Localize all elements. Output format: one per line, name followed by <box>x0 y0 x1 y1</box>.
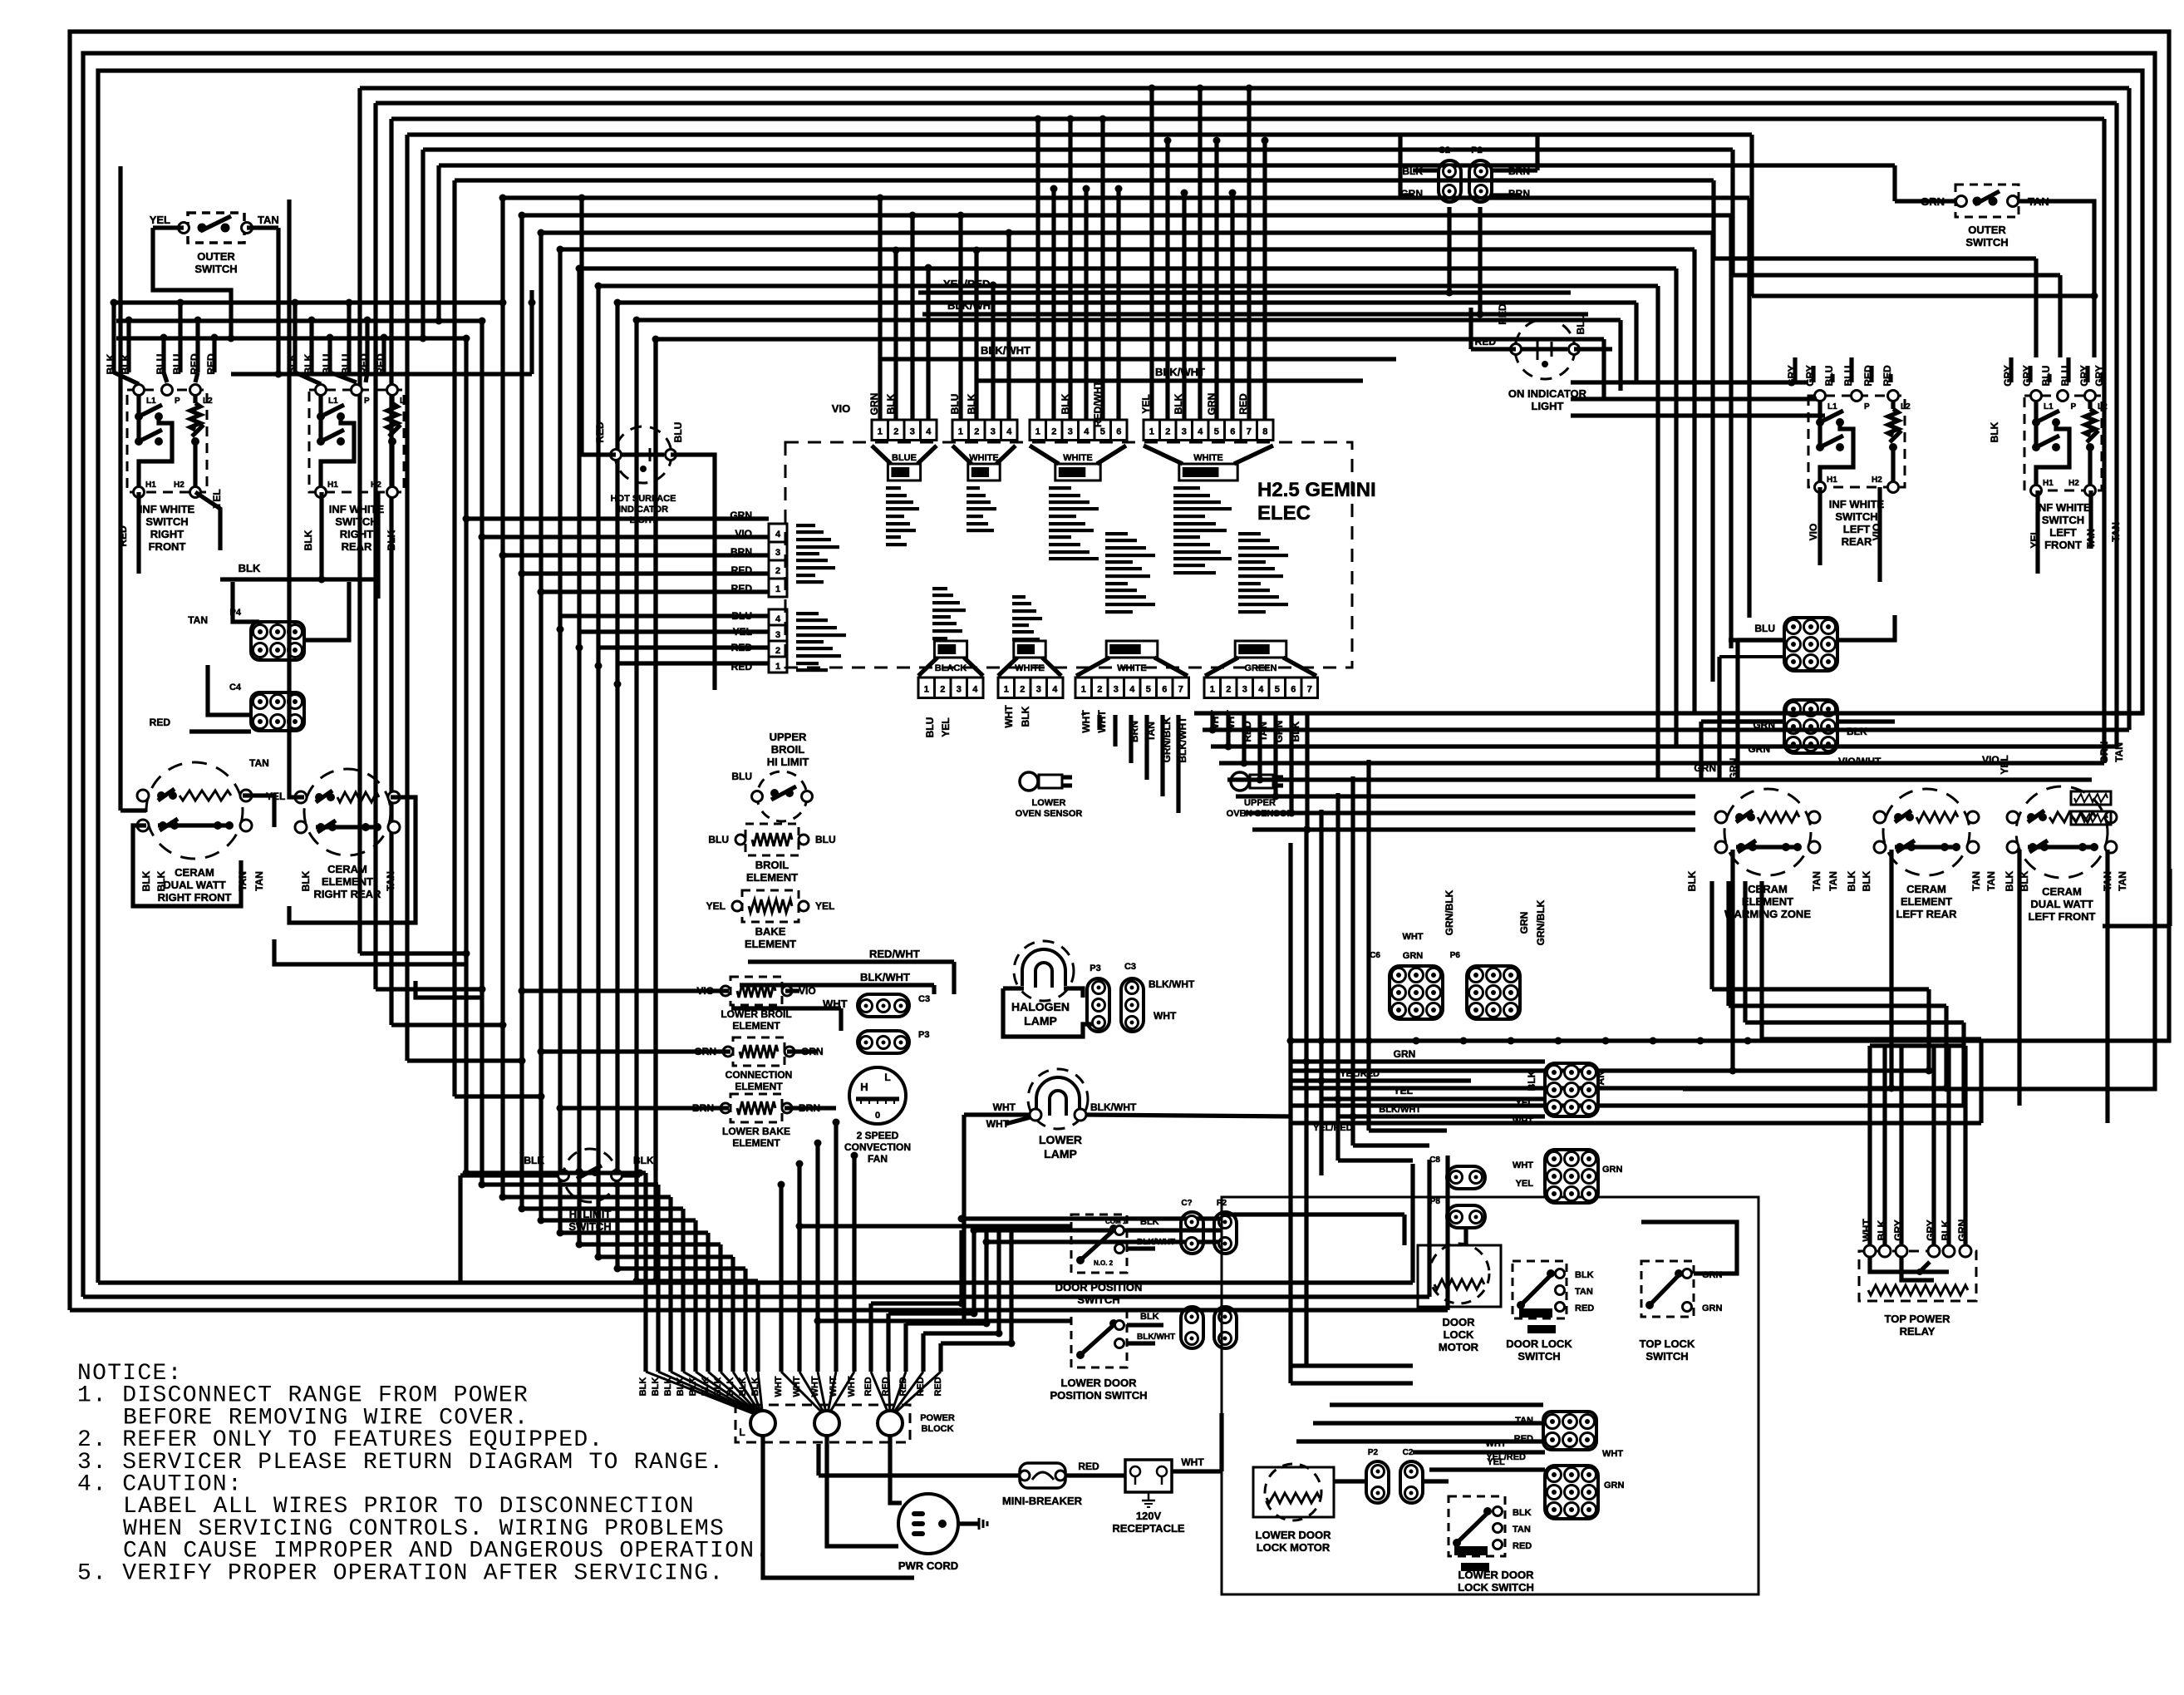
svg-text:120V: 120V <box>1136 1510 1162 1522</box>
svg-text:1: 1 <box>1210 685 1215 695</box>
svg-text:BLK: BLK <box>633 1155 654 1166</box>
svg-text:L2: L2 <box>2098 402 2108 411</box>
svg-text:P: P <box>1864 402 1870 411</box>
svg-text:CONVECTION: CONVECTION <box>844 1141 911 1153</box>
svg-text:BLU: BLU <box>672 422 684 443</box>
svg-text:BLK: BLK <box>239 562 261 574</box>
svg-text:BLK: BLK <box>303 353 314 374</box>
svg-text:4: 4 <box>1258 685 1264 695</box>
svg-text:RED: RED <box>1513 1541 1532 1551</box>
svg-text:1: 1 <box>775 662 780 672</box>
svg-text:CERAM: CERAM <box>2042 885 2082 898</box>
svg-text:BLK: BLK <box>638 1377 648 1397</box>
svg-text:RECEPTACLE: RECEPTACLE <box>1112 1522 1184 1535</box>
svg-text:BLACK: BLACK <box>935 663 967 673</box>
svg-text:LOWER: LOWER <box>1039 1133 1082 1146</box>
svg-text:ELEMENT: ELEMENT <box>322 875 373 888</box>
svg-text:1: 1 <box>1035 427 1040 437</box>
svg-text:TAN: TAN <box>2117 871 2128 891</box>
svg-text:BLK: BLK <box>1513 1508 1532 1518</box>
svg-text:LEFT: LEFT <box>1843 523 1871 535</box>
svg-text:RED: RED <box>933 1377 943 1396</box>
svg-text:INF WHITE: INF WHITE <box>140 503 195 515</box>
svg-text:GRY: GRY <box>2093 365 2105 387</box>
svg-text:2: 2 <box>1097 685 1102 695</box>
svg-text:POSITION SWITCH: POSITION SWITCH <box>1050 1389 1148 1402</box>
svg-text:SWITCH: SWITCH <box>2042 514 2084 526</box>
svg-text:RED: RED <box>358 353 370 375</box>
svg-text:BLU: BLU <box>815 834 836 845</box>
svg-text:YEL: YEL <box>1140 394 1152 413</box>
svg-text:L1: L1 <box>146 397 156 406</box>
svg-text:RED: RED <box>205 353 217 375</box>
svg-text:4: 4 <box>775 614 781 624</box>
svg-text:YEL/RED: YEL/RED <box>943 278 990 290</box>
svg-text:WHT: WHT <box>1080 710 1092 733</box>
svg-text:L1: L1 <box>328 397 338 406</box>
svg-text:BLK/WHT: BLK/WHT <box>1137 1333 1175 1342</box>
svg-text:RED: RED <box>594 421 606 443</box>
svg-text:BLOCK: BLOCK <box>921 1424 953 1434</box>
svg-text:GRN: GRN <box>1956 1220 1968 1242</box>
svg-text:4: 4 <box>1084 427 1090 437</box>
svg-text:WHT: WHT <box>1861 1219 1872 1242</box>
svg-text:BLK: BLK <box>1861 870 1872 891</box>
svg-text:BLU: BLU <box>1842 366 1854 387</box>
svg-text:LIGHT: LIGHT <box>630 515 657 525</box>
svg-text:BLU: BLU <box>2059 366 2071 387</box>
svg-text:5: 5 <box>1146 685 1151 695</box>
svg-text:LOCK MOTOR: LOCK MOTOR <box>1257 1541 1331 1554</box>
svg-text:REAR: REAR <box>342 540 372 553</box>
svg-text:P: P <box>2071 402 2077 411</box>
svg-text:LOWER BAKE: LOWER BAKE <box>722 1126 790 1137</box>
svg-text:YEL: YEL <box>815 900 834 912</box>
svg-text:BLK: BLK <box>1686 870 1698 891</box>
svg-text:5: 5 <box>1275 685 1280 695</box>
svg-text:BLK/WHT: BLK/WHT <box>1137 1238 1175 1247</box>
svg-text:DOOR: DOOR <box>1443 1316 1476 1328</box>
svg-text:MINI-BREAKER: MINI-BREAKER <box>1002 1495 1083 1507</box>
svg-text:7: 7 <box>1247 427 1252 437</box>
svg-text:WHT: WHT <box>1485 1439 1506 1449</box>
svg-text:2: 2 <box>1226 685 1231 695</box>
svg-text:LOWER BROIL: LOWER BROIL <box>721 1008 791 1020</box>
svg-text:GRN: GRN <box>1518 912 1530 934</box>
svg-text:SWITCH: SWITCH <box>1645 1350 1688 1362</box>
svg-text:BLK: BLK <box>155 870 167 891</box>
svg-text:BAKE: BAKE <box>755 925 786 938</box>
svg-text:CERAM: CERAM <box>1748 883 1788 895</box>
svg-text:RIGHT REAR: RIGHT REAR <box>314 888 382 900</box>
svg-text:P: P <box>364 397 370 406</box>
svg-text:6: 6 <box>1230 427 1235 437</box>
svg-text:1: 1 <box>958 427 963 437</box>
svg-text:BLK: BLK <box>386 530 397 550</box>
svg-text:YEL: YEL <box>1394 1085 1413 1096</box>
svg-text:C3: C3 <box>1124 962 1136 972</box>
svg-text:SWITCH: SWITCH <box>194 263 237 275</box>
svg-text:WHT: WHT <box>774 1376 784 1397</box>
svg-text:RIGHT: RIGHT <box>340 528 374 540</box>
svg-text:4: 4 <box>1006 427 1012 437</box>
svg-text:TAN: TAN <box>1575 1287 1593 1297</box>
svg-text:BLK/WHT: BLK/WHT <box>981 344 1031 357</box>
svg-text:SWITCH: SWITCH <box>1077 1293 1119 1306</box>
svg-text:ELEC: ELEC <box>1257 502 1311 525</box>
svg-text:VIO: VIO <box>799 985 816 997</box>
svg-text:H1: H1 <box>1827 475 1837 485</box>
svg-text:2: 2 <box>940 685 945 695</box>
svg-text:BLK: BLK <box>1940 1220 1951 1240</box>
svg-text:BLK: BLK <box>140 870 152 891</box>
svg-text:BLK: BLK <box>524 1155 544 1166</box>
svg-text:BLK: BLK <box>1060 393 1071 414</box>
svg-text:GRN/BLK: GRN/BLK <box>1444 889 1455 935</box>
svg-text:GRY: GRY <box>1925 1220 1936 1241</box>
svg-text:1: 1 <box>1149 427 1154 437</box>
svg-text:RELAY: RELAY <box>1900 1325 1936 1338</box>
svg-text:3: 3 <box>1036 685 1041 695</box>
svg-text:6: 6 <box>1291 685 1296 695</box>
svg-text:LOWER DOOR: LOWER DOOR <box>1061 1377 1138 1389</box>
svg-text:RED: RED <box>1862 365 1874 387</box>
svg-text:P2: P2 <box>1471 145 1482 155</box>
svg-text:2: 2 <box>1051 427 1056 437</box>
svg-text:4: 4 <box>926 427 932 437</box>
svg-text:VIO: VIO <box>832 402 850 415</box>
svg-text:L1: L1 <box>2044 402 2054 411</box>
svg-text:BROIL: BROIL <box>755 859 789 871</box>
svg-text:L1: L1 <box>1827 402 1837 411</box>
svg-text:BLU: BLU <box>1575 314 1586 335</box>
svg-text:GRY: GRY <box>2002 365 2014 387</box>
svg-text:REAR: REAR <box>1842 535 1872 548</box>
svg-text:H1: H1 <box>145 480 156 490</box>
svg-text:GRN: GRN <box>1604 1481 1625 1491</box>
svg-text:3: 3 <box>1182 427 1187 437</box>
svg-text:GRN: GRN <box>1702 1303 1723 1313</box>
svg-text:BLK: BLK <box>885 393 897 414</box>
svg-text:BLK: BLK <box>300 870 312 891</box>
svg-text:RED: RED <box>1237 393 1249 415</box>
svg-text:RED: RED <box>150 717 171 728</box>
svg-text:2: 2 <box>1165 427 1170 437</box>
svg-text:WHITE: WHITE <box>1117 663 1146 673</box>
svg-text:WHITE: WHITE <box>1193 453 1222 463</box>
svg-text:BLK: BLK <box>303 530 314 550</box>
svg-text:H1: H1 <box>327 480 338 490</box>
svg-text:RED: RED <box>189 353 200 375</box>
svg-text:L: L <box>739 1426 745 1438</box>
svg-text:ELEMENT: ELEMENT <box>1901 895 1952 908</box>
svg-text:WHT: WHT <box>1181 1456 1204 1468</box>
svg-text:OVEN SENSOR: OVEN SENSOR <box>1016 809 1083 819</box>
svg-text:RIGHT FRONT: RIGHT FRONT <box>158 891 232 904</box>
svg-text:CERAM: CERAM <box>1906 883 1946 895</box>
svg-text:WARMING ZONE: WARMING ZONE <box>1724 908 1811 920</box>
svg-text:BLK: BLK <box>1989 421 2000 442</box>
svg-text:6: 6 <box>1162 685 1167 695</box>
svg-text:5: 5 <box>1100 427 1105 437</box>
svg-text:1: 1 <box>878 427 883 437</box>
svg-text:TAN: TAN <box>1513 1525 1531 1535</box>
svg-text:5: 5 <box>1214 427 1219 437</box>
svg-text:TAN: TAN <box>1827 871 1839 891</box>
svg-text:PWR CORD: PWR CORD <box>898 1559 958 1572</box>
svg-text:TAN: TAN <box>253 871 265 891</box>
svg-text:YEL: YEL <box>1516 1098 1534 1108</box>
svg-text:BLU: BLU <box>1823 366 1835 387</box>
svg-text:1: 1 <box>1081 685 1086 695</box>
svg-text:HALOGEN: HALOGEN <box>1011 1000 1070 1013</box>
svg-text:BLK/WHT: BLK/WHT <box>1090 1101 1137 1113</box>
svg-text:SWITCH: SWITCH <box>1835 510 1877 523</box>
svg-text:POWER: POWER <box>920 1413 955 1423</box>
svg-text:TAN: TAN <box>385 871 396 891</box>
svg-text:YEL: YEL <box>706 900 726 912</box>
svg-text:BLU: BLU <box>708 834 729 845</box>
svg-text:BLU: BLU <box>171 354 183 375</box>
svg-text:VIO: VIO <box>1808 524 1819 541</box>
svg-text:GRN: GRN <box>868 393 880 416</box>
svg-text:SWITCH: SWITCH <box>1965 236 2008 249</box>
svg-text:4: 4 <box>1198 427 1203 437</box>
svg-text:L2: L2 <box>1901 402 1911 411</box>
svg-text:C8: C8 <box>1429 1155 1440 1165</box>
svg-text:RIGHT: RIGHT <box>150 528 184 540</box>
svg-text:RED: RED <box>1475 336 1497 347</box>
svg-text:UPPER: UPPER <box>770 731 807 743</box>
svg-text:1: 1 <box>775 584 780 594</box>
svg-text:INF WHITE: INF WHITE <box>2035 501 2091 514</box>
svg-text:3: 3 <box>775 548 780 558</box>
svg-text:GRN: GRN <box>1403 951 1424 961</box>
svg-text:HOT SURFACE: HOT SURFACE <box>611 494 676 504</box>
svg-text:WHT: WHT <box>1602 1449 1623 1459</box>
svg-text:YEL/RED: YEL/RED <box>1313 1123 1353 1133</box>
svg-text:TAN: TAN <box>1595 1071 1606 1091</box>
svg-text:H2: H2 <box>1872 475 1882 485</box>
svg-text:SWITCH: SWITCH <box>145 515 188 528</box>
svg-text:TOP POWER: TOP POWER <box>1885 1313 1951 1325</box>
svg-text:LOCK SWITCH: LOCK SWITCH <box>1458 1581 1534 1594</box>
svg-text:WHT: WHT <box>1513 1160 1533 1170</box>
svg-text:LAMP: LAMP <box>1044 1147 1077 1160</box>
svg-text:H2.5 GEMINI: H2.5 GEMINI <box>1257 479 1376 501</box>
svg-text:0: 0 <box>875 1111 880 1121</box>
svg-text:3: 3 <box>991 427 996 437</box>
svg-text:C?: C? <box>1181 1199 1192 1208</box>
svg-text:C4: C4 <box>229 682 242 692</box>
svg-text:WHT: WHT <box>847 1376 857 1397</box>
svg-text:TAN: TAN <box>249 757 269 769</box>
svg-text:DOOR POSITION: DOOR POSITION <box>1055 1281 1143 1293</box>
svg-text:BLK/WHT: BLK/WHT <box>947 299 997 312</box>
svg-text:ELEMENT: ELEMENT <box>732 1137 780 1149</box>
svg-text:LOCK: LOCK <box>1444 1328 1474 1341</box>
svg-text:7: 7 <box>1178 685 1183 695</box>
svg-text:RED: RED <box>375 353 386 375</box>
svg-text:BLU: BLU <box>340 354 352 375</box>
svg-text:3: 3 <box>910 427 915 437</box>
svg-text:GRY: GRY <box>2078 365 2090 387</box>
svg-text:COM 1: COM 1 <box>1105 1218 1127 1225</box>
svg-text:GRN/BLK: GRN/BLK <box>1535 899 1547 945</box>
svg-text:2: 2 <box>1020 685 1025 695</box>
svg-text:P6: P6 <box>1450 951 1461 960</box>
svg-text:DOOR LOCK: DOOR LOCK <box>1506 1338 1572 1350</box>
svg-text:2: 2 <box>893 427 898 437</box>
svg-text:GRY: GRY <box>1892 1220 1904 1241</box>
svg-text:BLK: BLK <box>1173 393 1184 414</box>
svg-text:GRN: GRN <box>1602 1165 1623 1175</box>
svg-text:LOWER DOOR: LOWER DOOR <box>1256 1529 1332 1541</box>
svg-text:UPPER: UPPER <box>1244 798 1276 808</box>
svg-text:P3: P3 <box>918 1030 929 1040</box>
svg-text:4: 4 <box>1129 685 1135 695</box>
svg-text:LEFT: LEFT <box>2049 526 2077 539</box>
svg-text:TAN: TAN <box>1985 871 1997 891</box>
svg-text:BLK: BLK <box>1876 1220 1887 1240</box>
svg-text:L2: L2 <box>203 397 213 406</box>
svg-text:2: 2 <box>974 427 979 437</box>
svg-text:FRONT: FRONT <box>2044 539 2082 551</box>
svg-text:L: L <box>884 1072 890 1083</box>
svg-text:WHT: WHT <box>1402 932 1423 942</box>
svg-text:BLK: BLK <box>1575 1270 1594 1280</box>
svg-text:BLK: BLK <box>1020 706 1031 727</box>
svg-text:BLK: BLK <box>1526 1070 1537 1091</box>
svg-text:TAN: TAN <box>1970 871 1982 891</box>
svg-text:GRN: GRN <box>1206 393 1217 416</box>
svg-text:1: 1 <box>1004 685 1009 695</box>
svg-text:INF WHITE: INF WHITE <box>1829 498 1885 510</box>
svg-text:LEFT FRONT: LEFT FRONT <box>2029 910 2096 923</box>
svg-text:OUTER: OUTER <box>1968 224 2006 236</box>
svg-text:RED: RED <box>863 1377 873 1396</box>
svg-text:LOWER: LOWER <box>1032 798 1066 808</box>
svg-text:3: 3 <box>957 685 962 695</box>
svg-text:WHT: WHT <box>1153 1010 1177 1022</box>
svg-text:4: 4 <box>1052 685 1058 695</box>
svg-text:BLU: BLU <box>1754 623 1775 634</box>
svg-text:BLK: BLK <box>2004 870 2015 891</box>
svg-text:BLU: BLU <box>731 771 752 782</box>
svg-text:YEL: YEL <box>940 717 952 737</box>
svg-text:BLK/WHT: BLK/WHT <box>1155 366 1205 378</box>
svg-text:SWITCH: SWITCH <box>335 515 377 528</box>
svg-text:H2: H2 <box>371 480 381 490</box>
svg-text:H: H <box>860 1081 868 1093</box>
svg-text:7: 7 <box>1307 685 1312 695</box>
svg-text:ELEMENT: ELEMENT <box>746 871 798 884</box>
svg-text:RED/WHT: RED/WHT <box>1092 380 1104 427</box>
svg-text:TAN: TAN <box>2110 522 2122 542</box>
svg-text:ELEMENT: ELEMENT <box>735 1081 783 1092</box>
svg-text:MOTOR: MOTOR <box>1439 1341 1479 1353</box>
svg-text:C6: C6 <box>1370 951 1380 960</box>
svg-text:P2: P2 <box>1368 1448 1379 1457</box>
svg-text:BLU: BLU <box>155 354 166 375</box>
svg-text:DUAL WATT: DUAL WATT <box>2030 898 2093 910</box>
svg-text:GREEN: GREEN <box>1244 663 1276 673</box>
svg-text:2: 2 <box>775 646 780 656</box>
svg-text:L2: L2 <box>400 397 410 406</box>
svg-text:P3: P3 <box>1090 963 1100 973</box>
svg-text:BLK: BLK <box>1140 1312 1159 1322</box>
svg-text:BLU: BLU <box>2040 366 2052 387</box>
svg-text:YEL/RED: YEL/RED <box>1340 1069 1380 1079</box>
svg-text:BLK/WHT: BLK/WHT <box>1379 1105 1421 1115</box>
svg-text:C2: C2 <box>1439 145 1450 155</box>
svg-text:INDICATOR: INDICATOR <box>618 505 668 515</box>
svg-text:WHITE: WHITE <box>969 453 998 463</box>
svg-text:BLUE: BLUE <box>892 453 917 463</box>
svg-text:H2: H2 <box>174 480 184 490</box>
svg-text:YEL: YEL <box>1516 1179 1534 1189</box>
svg-text:C3: C3 <box>918 994 930 1004</box>
svg-text:3: 3 <box>1114 685 1119 695</box>
svg-text:BLK/WHT: BLK/WHT <box>860 971 910 983</box>
svg-text:LAMP: LAMP <box>1024 1014 1057 1027</box>
svg-text:LEFT REAR: LEFT REAR <box>1896 908 1958 920</box>
svg-text:TAN: TAN <box>258 214 279 226</box>
svg-text:SWITCH: SWITCH <box>1517 1350 1560 1362</box>
svg-text:LOWER DOOR: LOWER DOOR <box>1458 1569 1535 1581</box>
svg-text:YEL: YEL <box>150 214 170 226</box>
svg-text:LIGHT: LIGHT <box>1532 400 1564 412</box>
svg-text:FAN: FAN <box>868 1153 888 1165</box>
svg-text:WHT: WHT <box>993 1101 1016 1113</box>
svg-text:H1: H1 <box>2043 479 2054 488</box>
svg-text:RED/WHT: RED/WHT <box>869 948 920 960</box>
svg-text:BLU: BLU <box>924 717 936 738</box>
svg-text:BLK: BLK <box>1140 1217 1159 1227</box>
svg-text:3: 3 <box>775 630 780 640</box>
svg-text:4: 4 <box>972 685 978 695</box>
svg-text:WHT: WHT <box>1003 705 1015 728</box>
svg-text:BLU: BLU <box>949 394 961 415</box>
svg-text:RED: RED <box>1078 1461 1099 1472</box>
svg-text:TAN: TAN <box>1811 871 1822 891</box>
svg-text:N.O. 2: N.O. 2 <box>1094 1259 1114 1267</box>
svg-text:ELEMENT: ELEMENT <box>1742 895 1793 908</box>
svg-text:OUTER: OUTER <box>197 250 235 263</box>
svg-text:P4: P4 <box>230 608 242 618</box>
svg-text:BLK: BLK <box>651 1377 661 1397</box>
svg-text:CERAM: CERAM <box>175 866 214 879</box>
svg-text:6: 6 <box>1116 427 1121 437</box>
svg-text:ELEMENT: ELEMENT <box>745 938 796 950</box>
svg-text:CONNECTION: CONNECTION <box>726 1069 793 1081</box>
svg-text:C2: C2 <box>1403 1448 1414 1457</box>
svg-text:WHITE: WHITE <box>1015 663 1044 673</box>
svg-text:FRONT: FRONT <box>149 540 186 553</box>
svg-text:WHITE: WHITE <box>1063 453 1092 463</box>
svg-text:3: 3 <box>1242 685 1247 695</box>
svg-text:BLK: BLK <box>966 393 977 414</box>
svg-text:BROIL: BROIL <box>771 743 805 756</box>
svg-text:H2: H2 <box>2068 479 2079 488</box>
svg-text:8: 8 <box>1262 427 1267 437</box>
svg-text:4: 4 <box>775 530 781 540</box>
svg-text:RED: RED <box>1881 365 1893 387</box>
svg-text:GRY: GRY <box>2021 365 2033 387</box>
svg-text:BLK: BLK <box>1846 870 1857 891</box>
svg-text:RED: RED <box>1575 1303 1594 1313</box>
svg-text:ELEMENT: ELEMENT <box>732 1020 780 1032</box>
